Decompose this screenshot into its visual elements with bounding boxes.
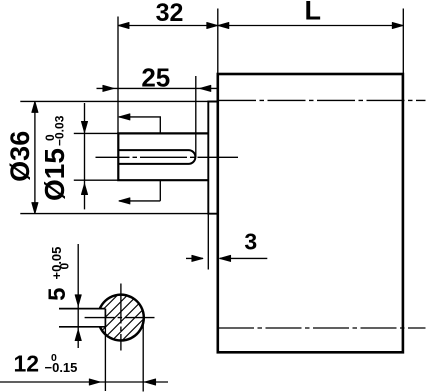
- svg-text:3: 3: [244, 229, 257, 255]
- svg-text:−0.15: −0.15: [45, 360, 78, 375]
- svg-text:−0.03: −0.03: [53, 115, 67, 146]
- svg-text:Ø36: Ø36: [5, 131, 35, 182]
- svg-text:L: L: [305, 0, 322, 25]
- svg-text:32: 32: [156, 0, 184, 27]
- svg-text:12: 12: [14, 351, 40, 377]
- svg-text:0: 0: [57, 263, 71, 270]
- svg-text:Ø15: Ø15: [39, 148, 70, 201]
- svg-text:5: 5: [44, 288, 71, 301]
- svg-text:25: 25: [141, 62, 170, 92]
